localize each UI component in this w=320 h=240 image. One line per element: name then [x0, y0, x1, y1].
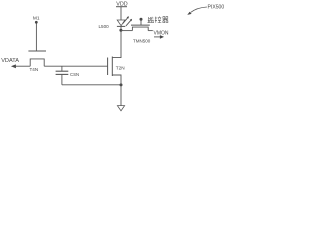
node VMON output arrow [154, 36, 161, 38]
capacitor CSN bottom plate [56, 73, 69, 75]
svg-text:M1: M1 [33, 16, 40, 22]
wire to ground [120, 85, 122, 106]
svg-text:L500: L500 [99, 24, 110, 29]
svg-text:TMN500: TMN500 [133, 39, 151, 44]
transistor T4N gate bar [28, 50, 46, 52]
node junction dot bottom [120, 83, 123, 86]
transistor T4N channel hump [30, 59, 44, 66]
svg-text:PIX500: PIX500 [208, 4, 225, 10]
wire node A to TMN500 [121, 30, 132, 32]
wire VDATA to T4N [15, 65, 31, 67]
transistor T2N gate bar [107, 58, 109, 76]
wire bottom rail [62, 84, 121, 86]
capacitor CSN top plate [56, 70, 69, 72]
wire LED cathode to node A [120, 26, 122, 30]
node M1 terminal dot [35, 21, 38, 24]
node VDATA input arrow [11, 64, 16, 68]
char qi [163, 17, 169, 23]
ground symbol [117, 106, 124, 111]
wire gate lead of T4N [35, 24, 37, 51]
callout PIX500 leader arrow [191, 7, 207, 12]
node A junction dot [119, 29, 122, 32]
transistor T2N drain lead [112, 30, 121, 57]
svg-text:CSN: CSN [70, 72, 79, 77]
monitor block label (Chinese jian-kong-qi) [147, 16, 168, 22]
LED L500 triangle [117, 20, 125, 26]
char jian [147, 17, 154, 23]
wire TMN500 gate lead [140, 21, 142, 26]
transistor TMN500 channel hump [132, 27, 148, 31]
transistor T2N channel bar [111, 57, 113, 77]
svg-text:T4N: T4N [30, 67, 39, 72]
svg-text:VDATA: VDATA [1, 58, 19, 64]
wire T4N to T2N gate [44, 65, 107, 67]
transistor TMN500 gate bar [131, 24, 150, 26]
LED L500 emission arrow 2 [126, 20, 131, 26]
wire TMN500 to VMON [148, 30, 153, 32]
wire VDD to LED anode [120, 7, 122, 20]
LED L500 emission arrow 1 [123, 17, 128, 23]
wire capacitor CSN top stem [61, 66, 63, 71]
LED L500 cathode bar [117, 25, 125, 27]
char kong [155, 16, 161, 22]
power VDD terminal bar [116, 6, 127, 8]
wire capacitor CSN bottom stem [61, 74, 63, 84]
node monitor terminal dot [140, 18, 143, 21]
transistor T2N source lead [112, 75, 121, 85]
svg-text:T2N: T2N [116, 66, 125, 71]
